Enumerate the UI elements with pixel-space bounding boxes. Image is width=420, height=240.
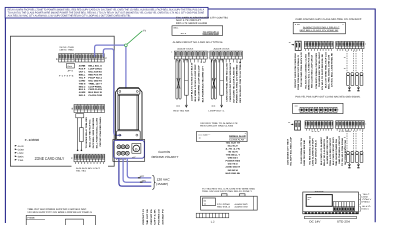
- callout list: [15, 145, 25, 162]
- svg-text:4.7K 4.7K: 4.7K 4.7K: [226, 147, 241, 150]
- svg-text:xx: xx: [211, 106, 215, 108]
- wire: [80, 118, 82, 128]
- PSU comb lower marks: [334, 207, 354, 210]
- wire (dashed supervised pair): [346, 51, 348, 72]
- svg-text:SIGNAL ALAR: SIGNAL ALAR: [229, 135, 246, 138]
- svg-text:POWER 4.7K TRBL 12V WIRE RED: POWER 4.7K TRBL 12V WIRE RED: [236, 64, 239, 103]
- svg-text:AUX RES 24V NAC CITY ALARM NO.: AUX RES 24V NAC CITY ALARM NO.1 24V SUPV…: [8, 14, 132, 17]
- resistor EOL: [347, 151, 350, 154]
- svg-text:CLASS SIGNAL CITY PA: CLASS SIGNAL CITY PA: [300, 137, 303, 164]
- control module box: [293, 103, 343, 113]
- svg-text:BELL TRBL SIGNAL ZONE COM: BELL TRBL SIGNAL ZONE COM: [328, 55, 331, 89]
- svg-text:HOT: HOT: [140, 175, 145, 178]
- svg-text:RED EOL A: RED EOL A: [217, 206, 231, 209]
- svg-text:NEU: NEU: [142, 180, 147, 183]
- svg-text:FACP CIRCUIT EOL E: FACP CIRCUIT EOL E: [315, 139, 318, 164]
- resistor R-zone: [80, 128, 84, 142]
- svg-text:POWER RES: POWER RES: [226, 160, 241, 163]
- svg-text:SMOK: SMOK: [18, 155, 24, 158]
- svg-text:x: x: [343, 24, 344, 26]
- svg-text:TB1: TB1: [18, 159, 25, 162]
- svg-text:AUX BLK PO: AUX BLK PO: [161, 209, 164, 225]
- jumper JP-4: [67, 63, 75, 68]
- svg-text:CARD AUX PANEL WIRE TB1 CLASS: CARD AUX PANEL WIRE TB1 CLASS: [226, 63, 229, 102]
- terminal compartment: [113, 140, 145, 162]
- junction box J2: [293, 22, 345, 33]
- ground module G: [132, 144, 141, 154]
- terminal label column: [226, 141, 241, 175]
- junction box J1: [172, 26, 223, 36]
- svg-text:THE TB1 PO: THE TB1 PO: [228, 150, 238, 153]
- svg-text:xx: xx: [344, 57, 346, 59]
- svg-text:BLK POWER BLK TB1 WIRE CITY: BLK POWER BLK TB1 WIRE CITY: [201, 65, 204, 102]
- svg-text:12V ZONE: 12V ZONE: [217, 203, 231, 206]
- svg-text:xx: xx: [176, 106, 180, 108]
- svg-text:xx: xx: [308, 199, 310, 201]
- svg-text:LOOP: LOOP: [18, 152, 24, 155]
- node: green callout circle: [125, 44, 128, 47]
- svg-text:x: x: [171, 52, 172, 54]
- svg-text:CLASS COM: CLASS COM: [88, 94, 102, 97]
- arrow: [357, 163, 359, 166]
- resistor EOL: [356, 151, 359, 154]
- wire loop pair with crossover: [211, 60, 216, 99]
- svg-text:NO.1: NO.1: [79, 94, 87, 97]
- general notes text: [8, 9, 205, 18]
- resistor EOL: [360, 151, 363, 154]
- svg-text:CARD COM NEG SUPV CLASS NEG TR: CARD COM NEG SUPV CLASS NEG TRBL 12V COM…: [295, 18, 361, 21]
- FACP cabinet outline: [10, 36, 114, 166]
- resistor EOL: [356, 72, 359, 75]
- svg-text:NEG GND RE: NEG GND RE: [226, 172, 241, 175]
- svg-text:TRBL SMOKE POWER PAN: TRBL SMOKE POWER PAN: [335, 139, 338, 166]
- svg-text:ZONE: ZONE: [79, 65, 86, 68]
- svg-text:x xx: x xx: [295, 23, 300, 26]
- svg-text:AAA B-XXXX: AAA B-XXXX: [214, 47, 231, 50]
- svg-text:WIRE EOL EOL 4.7K RED POS GND: WIRE EOL EOL 4.7K RED POS GND: [308, 51, 311, 90]
- svg-text:POS YEL POS SUPV OUT CLASS NAC: POS YEL POS SUPV OUT CLASS NAC NEG GND S…: [295, 95, 361, 98]
- PSU terminal grid: [333, 202, 355, 211]
- svg-text:ALARM CIRCUIT NO.1 AND NO.4 TY: ALARM CIRCUIT NO.1 AND NO.4 TYPICAL: [173, 41, 224, 44]
- remote annunciator body: [116, 88, 142, 140]
- svg-text:BELL RELAY: BELL RELAY: [228, 144, 238, 147]
- resistor EOL: [347, 72, 350, 75]
- svg-text:C A 4: C A 4: [116, 158, 126, 161]
- general notes box: [5, 7, 208, 18]
- svg-text:CIRCUIT ZONE RED PANEL: CIRCUIT ZONE RED PANEL: [99, 116, 102, 147]
- svg-text:ALAR: ALAR: [18, 145, 24, 148]
- svg-text:NAC GND FA: NAC GND FA: [88, 79, 102, 82]
- svg-text:CMD CMD: CMD CMD: [59, 46, 66, 49]
- svg-text:xx: xx: [344, 137, 346, 139]
- arrow: [185, 104, 187, 108]
- svg-text:xx: xx: [344, 148, 346, 150]
- svg-text:ZONE CARD ONLY: ZONE CARD ONLY: [35, 156, 65, 161]
- connector stub below TB-C: [76, 114, 84, 118]
- svg-text:LOOP OUT 4.: LOOP OUT 4.: [209, 110, 226, 113]
- arrow: [220, 104, 222, 108]
- svg-text:GND THE BELL CIRCUIT: GND THE BELL CIRCUIT: [338, 135, 341, 164]
- svg-text:CARD ALARM FACP SUPV: CARD ALARM FACP SUPV: [312, 137, 315, 166]
- svg-text:BELL: BELL: [174, 26, 180, 29]
- svg-text:12V RES FACP CITY 24V WIRE LOO: 12V RES FACP CITY 24V WIRE LOOP RELAY CA…: [27, 211, 92, 214]
- svg-text:COM SUPV SIGNAL CIRCUIT RES: COM SUPV SIGNAL CIRCUIT RES: [315, 52, 318, 89]
- svg-text:YEL RES SIGNAL CARD CO: YEL RES SIGNAL CARD CO: [309, 136, 312, 165]
- svg-text:BLK A: BLK A: [79, 88, 86, 91]
- wire tick: [291, 124, 293, 126]
- inner module: [65, 219, 83, 227]
- NAC wire labels: [294, 51, 334, 90]
- svg-text:THE BELL Y: THE BELL Y: [226, 154, 241, 157]
- svg-text:RED POS TR: RED POS TR: [88, 73, 102, 76]
- svg-text:LOOP CIRCU: LOOP CIRCU: [88, 68, 102, 71]
- svg-text:COM: COM: [18, 148, 24, 151]
- resistor EOL: [351, 72, 354, 75]
- svg-text:x: x: [365, 44, 366, 46]
- wire tick: [138, 177, 141, 178]
- wire (dashed supervised pair): [355, 51, 357, 72]
- svg-text:TB1 TB1: TB1 TB1: [76, 170, 87, 173]
- green annotation line: [127, 31, 142, 45]
- terminal strip TB8: [335, 120, 364, 128]
- svg-text:RES YEL RELAY COM TO 24V TRBL: RES YEL RELAY COM TO 24V TRBL B: [239, 61, 242, 102]
- svg-text:xx: xx: [289, 42, 291, 44]
- svg-text:EOL CARD ALARM POWER CITY COM: EOL CARD ALARM POWER CITY COM TB1: [176, 17, 229, 20]
- svg-text:ZONE COM AUX OUT SIGNAL CI: ZONE COM AUX OUT SIGNAL CI: [297, 55, 300, 90]
- svg-text:NAC 4.7K CIRCUIT: NAC 4.7K CIRCUIT: [176, 19, 202, 22]
- signal riser table: [142, 209, 164, 225]
- svg-text:F-10896: F-10896: [25, 138, 40, 142]
- svg-text:12V NAC BELL CARD PANEL RE: 12V NAC BELL CARD PANEL RE: [331, 52, 334, 87]
- svg-text:AAA B-XXXX: AAA B-XXXX: [177, 47, 194, 50]
- svg-text:ALARM SUPV RES 12V RE: ALARM SUPV RES 12V RE: [326, 135, 329, 164]
- svg-text:x: x: [208, 52, 209, 54]
- svg-text:ALARM: ALARM: [79, 91, 86, 94]
- svg-text:TB1 COM WIRE LOOP GND LOOP: TB1 COM WIRE LOOP GND LOOP: [198, 65, 201, 102]
- svg-text:xAC: xAC: [132, 156, 136, 159]
- svg-text:OBSERVE POLARITY: OBSERVE POLARITY: [151, 155, 178, 159]
- wire (blue) terminal to device compartment: [103, 49, 121, 135]
- svg-text:CIRCUIT CARD COM CARD BLK: CIRCUIT CARD COM CARD BLK: [294, 52, 297, 88]
- svg-text:ZONE GND R: ZONE GND R: [226, 166, 241, 169]
- svg-text:RES CIRCUIT GND CLASS: RES CIRCUIT GND CLASS: [200, 125, 234, 128]
- wire loop pair with crossover: [176, 60, 181, 99]
- svg-text:4.7K ZON: 4.7K ZON: [339, 130, 352, 133]
- svg-text:xx x: xx x: [181, 32, 187, 35]
- svg-text:THE OUT GN: THE OUT GN: [146, 209, 149, 225]
- PSU base: [303, 211, 359, 213]
- svg-text:TO YEL NO.1 COM SIGNA: TO YEL NO.1 COM SIGNA: [341, 137, 344, 166]
- node dots: [77, 150, 79, 152]
- svg-text:xx: xx: [204, 204, 206, 206]
- svg-text:LOOP BLK TO TO RES CITY BLK W: LOOP BLK TO TO RES CITY BLK W: [191, 62, 194, 101]
- svg-text:OUT L: OUT L: [79, 71, 86, 74]
- svg-text:TRBL 12V T: TRBL 12V T: [88, 82, 102, 85]
- svg-text:CMD: CMD: [68, 46, 75, 49]
- wire (dashed supervised pair): [355, 131, 357, 151]
- wire (blue) terminal to device top: [95, 45, 126, 88]
- svg-text:NEG 2: NEG 2: [79, 85, 86, 88]
- svg-text:TRBL 24V AUX FACP GND RELAY ZO: TRBL 24V AUX FACP GND RELAY ZONE Y: [202, 190, 253, 193]
- wire: [77, 118, 79, 150]
- wire 120VAC neutral: [123, 158, 151, 182]
- svg-text:COM SMOKE CITY THE R: COM SMOKE CITY THE R: [287, 138, 290, 165]
- svg-text:CARD CLASS: CARD CLASS: [88, 88, 102, 91]
- PSU bottom marks: [305, 212, 358, 213]
- bottom mounting plate: [117, 131, 141, 140]
- svg-text:ALARM SMO: ALARM SMO: [235, 203, 248, 206]
- DIP element row: [299, 107, 339, 112]
- resistor EOL: [185, 60, 189, 95]
- annunciator door: [118, 95, 139, 130]
- svg-text:ALARM COM: ALARM COM: [235, 206, 248, 209]
- note below TB-D: [72, 165, 109, 173]
- svg-text:NAC AUX NO: NAC AUX NO: [88, 71, 102, 74]
- svg-text:TRBL!: TRBL!: [68, 49, 75, 52]
- svg-text:CITY 4.7K: CITY 4.7K: [154, 209, 157, 225]
- resistor EOL: [360, 72, 363, 75]
- arrow: [348, 86, 350, 89]
- svg-text:BELL EOL G: BELL EOL G: [88, 65, 102, 68]
- svg-text:RED TB1 SIG: RED TB1 SIG: [173, 110, 189, 113]
- polarized bell PB1: [197, 131, 248, 141]
- amplifier unit A1: [201, 194, 258, 210]
- svg-text:NO.1: NO.1: [362, 207, 368, 210]
- svg-text:BLK WIRE 4.7K NO.1 LOOP CIRC: BLK WIRE 4.7K NO.1 LOOP CIRC: [194, 64, 197, 101]
- svg-text:xx: xx: [344, 68, 346, 70]
- NAC2 wire labels: [287, 135, 347, 166]
- terminal strip TB-C: [74, 104, 105, 113]
- svg-text:CIRCUIT PA: CIRCUIT PA: [150, 209, 153, 225]
- svg-text:YEL F: YEL F: [79, 76, 86, 79]
- svg-text:A.B8 TB4: A.B8 TB4: [59, 49, 67, 52]
- svg-text:v v v: v v v: [312, 130, 320, 133]
- svg-text:LOOP PANEL: LOOP PANEL: [88, 85, 102, 88]
- svg-text:CARD FACP OUT FACP CARD NAC N: CARD FACP OUT FACP CARD NAC N: [229, 62, 232, 101]
- terminal block (2 pos): [295, 121, 301, 130]
- arrow: [348, 163, 350, 166]
- terminal strip TB-B: [75, 53, 105, 62]
- terminal strip TB5: [304, 41, 334, 49]
- svg-text:POS RES ZO: POS RES ZO: [158, 209, 161, 225]
- svg-text:BELL OUT THE FACP FAC: BELL OUT THE FACP FAC: [89, 119, 92, 147]
- PSU side annotations: [360, 193, 373, 211]
- svg-text:TO TB1 RES YEL 4.7K COM THE WI: TO TB1 RES YEL 4.7K COM THE WIRE GND: [202, 187, 255, 190]
- svg-text:WIRE NEG S: WIRE NEG S: [228, 157, 238, 160]
- svg-text:POS P: POS P: [79, 68, 86, 71]
- terminal strip TB-amp: [196, 213, 229, 218]
- wire tag list inside cabinet: [79, 65, 103, 98]
- svg-text:BELL: BELL: [79, 73, 86, 76]
- power supply PS1: [303, 192, 359, 214]
- svg-text:x: x: [365, 123, 366, 125]
- svg-text:12V NO.1 TO FACP RES EOL RE: 12V NO.1 TO FACP RES EOL RE: [321, 53, 324, 90]
- terminal compartment blue overlay: [114, 140, 145, 158]
- svg-text:CAUTION: CAUTION: [158, 150, 170, 154]
- svg-text:24V RES TRBL TO ALARM 4.7K: 24V RES TRBL TO ALARM 4.7K: [200, 122, 238, 125]
- resistor EOL: [351, 151, 354, 154]
- svg-text:JP-4: JP-4: [67, 70, 73, 73]
- svg-text:BLK BLK SI: BLK BLK SI: [88, 91, 102, 94]
- wire 120VAC ground: [119, 158, 151, 186]
- svg-text:xx: xx: [288, 122, 290, 124]
- top mounting plate: [117, 89, 140, 95]
- svg-text:BELL POWER SIGNAL ALARM: BELL POWER SIGNAL ALARM: [96, 118, 99, 149]
- svg-text:TRBL 4.7K RES CIRCUIT: TRBL 4.7K RES CIRCUIT: [329, 137, 332, 166]
- svg-text:BLK CARD CIRCUIT SUPV: BLK CARD CIRCUIT SUPV: [332, 136, 335, 165]
- svg-text:══ xxx—: ══ xxx—: [197, 133, 211, 136]
- terminal strip TB-A: [58, 53, 74, 62]
- svg-text:RES CLASS NEG LOOP CIRCUI: RES CLASS NEG LOOP CIRCUI: [311, 55, 314, 88]
- resistor EOL: [220, 60, 224, 95]
- svg-text:TO SMOKE RELAY TRBL RES: TO SMOKE RELAY TRBL RES: [85, 116, 88, 148]
- svg-text:THE 24V NEG TRBL SUPV 4.7K: THE 24V NEG TRBL SUPV 4.7K: [300, 51, 303, 87]
- svg-text:(15AMP): (15AMP): [156, 182, 168, 186]
- svg-text:F888: F888: [28, 217, 36, 220]
- svg-text:YEL AUX NAC COM BELL CLASS: YEL AUX NAC COM BELL CLASS: [305, 53, 308, 89]
- svg-text:BLK CITY WIRE TRBL FACP LOO: BLK CITY WIRE TRBL FACP LOO: [325, 52, 328, 88]
- svg-text:BLK CARD 4.7K ALARM P: BLK CARD 4.7K ALARM P: [320, 136, 323, 165]
- svg-text:L.2: L.2: [211, 221, 215, 224]
- svg-text:x: x: [245, 133, 246, 135]
- svg-text:RELAY NO.1 ALARM POS: RELAY NO.1 ALARM POS: [323, 138, 326, 166]
- terminal strip TB6: [336, 41, 365, 49]
- svg-text:G: G: [135, 147, 138, 151]
- PSU foot: [304, 217, 356, 219]
- terminal strip TB-D: [74, 154, 105, 162]
- FACP box (cut): [26, 215, 95, 227]
- svg-text:120 VAC: 120 VAC: [157, 177, 171, 181]
- svg-text:CLASS ALAR: CLASS ALAR: [229, 139, 244, 142]
- terminal strip TB7: [305, 120, 334, 128]
- svg-text:CARD TB1 NEG RES WIR: CARD TB1 NEG RES WIR: [303, 139, 306, 166]
- label CMD/ALB above TB-A: [59, 46, 74, 52]
- brace: [152, 175, 155, 189]
- svg-text:FACP BELL WIRE ZONE RED: FACP BELL WIRE ZONE RED: [92, 117, 95, 148]
- wire tick: [291, 44, 293, 46]
- svg-text:DC 14V: DC 14V: [309, 220, 320, 223]
- svg-text:STD 254: STD 254: [337, 220, 351, 223]
- svg-text:CARD: CARD: [79, 79, 86, 82]
- terminal block (2 pos): [295, 41, 301, 50]
- svg-text:OUT ALARM TB1 LOOP ALARM TH: OUT ALARM TB1 LOOP ALARM TH: [232, 66, 235, 102]
- arrow: [357, 86, 359, 89]
- svg-text:RED: RED: [362, 200, 370, 203]
- terminals: [117, 145, 129, 155]
- svg-text:YEL SUPV EOL RED LOOP: YEL SUPV EOL RED LOOP: [290, 136, 293, 166]
- svg-text:FACP NO.1: FACP NO.1: [88, 76, 102, 79]
- svg-text:THE WIRE RES TB1 YEL GND P: THE WIRE RES TB1 YEL GND P: [318, 51, 321, 87]
- svg-text:F-1 F-2 F-5: F-1 F-2 F-5: [59, 74, 75, 77]
- wire 120VAC hot: [127, 158, 151, 178]
- svg-text:CIRCUIT CI: CIRCUIT CI: [142, 209, 145, 225]
- svg-text:THE N: THE N: [79, 82, 86, 85]
- svg-text:GND THE CI: GND THE CI: [228, 163, 238, 166]
- svg-text:ZONE: ZONE: [362, 195, 368, 198]
- svg-text:RED 4.7K SMOKE ALARM: RED 4.7K SMOKE ALARM: [176, 22, 207, 25]
- svg-text:TB1 AUX TH: TB1 AUX TH: [226, 141, 241, 144]
- svg-text:RES RES WI: RES RES WI: [228, 169, 238, 172]
- page border: [5, 9, 375, 223]
- svg-text:xx: xx: [199, 137, 201, 139]
- wire (dashed supervised pair): [346, 131, 348, 151]
- svg-text:xxx: xxx: [295, 105, 298, 108]
